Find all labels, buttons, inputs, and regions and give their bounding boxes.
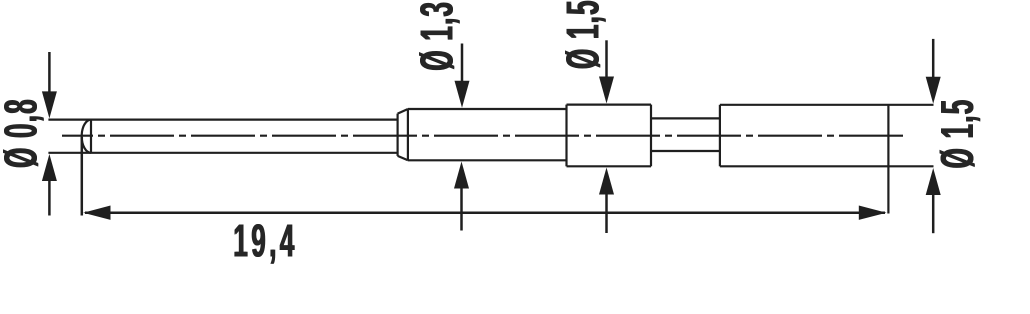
svg-text:Ø 1,3: Ø 1,3 [410, 0, 462, 70]
svg-text:Ø 1,5: Ø 1,5 [931, 98, 983, 168]
svg-text:Ø 0,8: Ø 0,8 [0, 98, 46, 168]
svg-text:19,4: 19,4 [234, 215, 298, 267]
svg-text:Ø 1,5: Ø 1,5 [557, 0, 609, 68]
